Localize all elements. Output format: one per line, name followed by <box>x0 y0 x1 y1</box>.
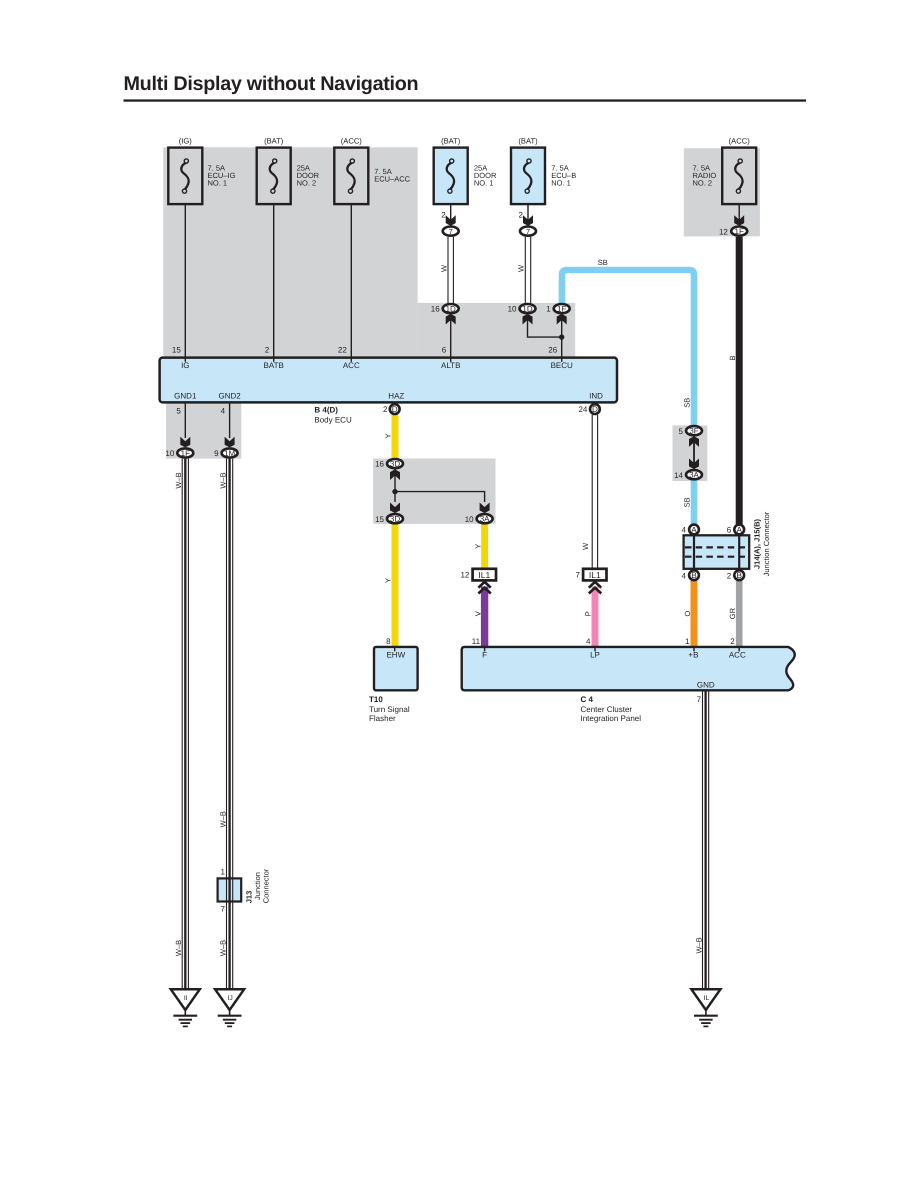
arrow up into 3F pin 5 <box>689 436 699 447</box>
svg-text:BATB: BATB <box>264 361 284 370</box>
svg-text:2: 2 <box>730 637 735 646</box>
svg-text:Connector: Connector <box>261 868 270 903</box>
wire W: IND pin 24 to IL1 pin 7 (white wire, double line) <box>592 415 597 569</box>
arrow down into 3A pin 14 <box>689 459 699 470</box>
fuse DOOR NO.1 (BAT) 25A <box>434 148 468 205</box>
svg-text:Center Cluster: Center Cluster <box>581 705 633 714</box>
svg-text:15: 15 <box>375 515 384 524</box>
svg-text:EHW: EHW <box>386 650 405 659</box>
connector A pin 4 (SB) <box>689 525 699 535</box>
svg-text:Turn Signal: Turn Signal <box>369 705 410 714</box>
svg-text:BECU: BECU <box>551 361 573 370</box>
wire: fuse ECU-B pin 2 to connector 7 <box>527 193 529 226</box>
svg-text:3D: 3D <box>390 515 400 524</box>
svg-text:7: 7 <box>575 570 580 579</box>
svg-text:1: 1 <box>685 637 690 646</box>
svg-text:22: 22 <box>338 346 347 355</box>
svg-text:7: 7 <box>697 695 702 704</box>
arrow up into 1F pin 1 <box>557 314 567 325</box>
ECU B4(D) Body ECU box <box>160 358 617 403</box>
svg-text:15: 15 <box>172 346 181 355</box>
shield chevrons under IL1 left <box>478 582 490 594</box>
gray block: power source area (fuses IG/BAT/ACC) <box>163 147 417 357</box>
svg-text:25ADOORNO. 1: 25ADOORNO. 1 <box>474 164 497 188</box>
arrow into 1F (GND1) <box>180 437 190 448</box>
svg-text:2: 2 <box>383 405 388 414</box>
shield connector IL1 pin 7 <box>583 569 606 581</box>
wire W: connector 7 to connector 1D pin 16 (white wire, double line) <box>448 237 453 303</box>
svg-text:Flasher: Flasher <box>369 714 396 723</box>
arrow into connector 7 (left) <box>446 215 456 226</box>
svg-text:Body ECU: Body ECU <box>314 416 352 425</box>
svg-text:F: F <box>482 650 487 659</box>
svg-text:1F: 1F <box>735 227 744 236</box>
arrow up into 1D pin 10 <box>523 314 533 325</box>
svg-text:O: O <box>683 611 692 617</box>
svg-text:8: 8 <box>386 637 391 646</box>
fuse ECU-B NO.1 (BAT) 7.5A <box>511 148 545 205</box>
wire Y: HAZ pin 2 to connector 3D pin 16 (yellow) <box>392 415 399 459</box>
svg-text:GND: GND <box>697 680 715 689</box>
connector B pin 2 (GR wire) <box>734 570 744 580</box>
svg-text:1F: 1F <box>181 449 190 458</box>
svg-text:5: 5 <box>176 406 181 415</box>
gray block: RADIO NO.2 fuse area <box>684 148 760 236</box>
svg-text:B: B <box>728 355 737 360</box>
svg-text:W–B: W–B <box>174 940 183 956</box>
svg-text:GR: GR <box>728 607 737 619</box>
svg-text:HAZ: HAZ <box>388 391 404 400</box>
title underline rule <box>124 99 807 101</box>
svg-text:2: 2 <box>727 571 732 580</box>
svg-text:C 4: C 4 <box>581 695 594 704</box>
svg-text:(ACC): (ACC) <box>341 137 363 146</box>
svg-text:1: 1 <box>221 867 226 876</box>
T10 Turn Signal Flasher box <box>374 647 418 690</box>
svg-text:GND2: GND2 <box>218 391 241 400</box>
connector 3A pin 10 <box>477 514 493 523</box>
svg-text:SB: SB <box>598 258 608 267</box>
wire W-B: C4 GND pin 7 to ground IL (white-black wire) <box>703 690 709 989</box>
svg-text:B 4(D): B 4(D) <box>314 405 338 414</box>
fuse RADIO NO.2 (ACC) 7.5A <box>722 148 756 205</box>
junction dot on BECU net <box>559 334 564 339</box>
wire: fuse ECU-IG to Body ECU pin 15 (IG) <box>184 193 186 358</box>
connector B pin 4 (O wire) <box>689 570 699 580</box>
svg-text:W–B: W–B <box>219 472 228 488</box>
junction connector internal wire lines <box>694 534 739 570</box>
connector 3D pin 16 <box>387 459 403 469</box>
svg-text:(ACC): (ACC) <box>729 137 751 146</box>
svg-text:B: B <box>691 571 697 580</box>
svg-text:W–B: W–B <box>174 472 183 488</box>
svg-text:IL: IL <box>704 995 710 1002</box>
svg-text:6: 6 <box>727 526 732 535</box>
wire: fuse ECU-ACC to Body ECU pin 22 (ACC) <box>350 193 352 358</box>
svg-text:Multi Display without Navigati: Multi Display without Navigation <box>124 73 419 95</box>
svg-text:A: A <box>736 525 742 534</box>
svg-text:4: 4 <box>586 637 591 646</box>
connector 1D pin 16 <box>443 304 459 314</box>
C4 pin stubs <box>485 647 740 652</box>
svg-text:ACC: ACC <box>729 650 746 659</box>
svg-text:D: D <box>592 405 598 414</box>
svg-text:T10: T10 <box>369 695 383 704</box>
shield connector IL1 pin 12 <box>473 569 496 581</box>
wire: GND1 pin 5 to connector 1F pin 10 <box>184 402 186 438</box>
svg-text:II: II <box>184 995 188 1002</box>
svg-text:2: 2 <box>441 210 446 219</box>
svg-text:1F: 1F <box>557 305 566 314</box>
wire: BECU pin 26 net with branch to 1D pin 10 and 1F pin 1 <box>528 316 562 358</box>
gray block: ground connector area below GND1/GND2 <box>166 402 241 458</box>
connector 1D pin 10 <box>520 304 536 314</box>
svg-text:(BAT): (BAT) <box>264 137 284 146</box>
wire P: IL1 to C4 pin 4 LP (pink) <box>592 587 599 648</box>
svg-text:26: 26 <box>548 346 557 355</box>
junction connector internal dashed bus lines <box>685 547 748 556</box>
svg-text:+B: +B <box>688 650 698 659</box>
wire GR: junction connector B pin 2 to C4 ACC pin 2 (gray) <box>736 581 743 647</box>
wire: 3F to 3A interconnect <box>693 438 695 467</box>
svg-text:7. 5AECU–BNO. 1: 7. 5AECU–BNO. 1 <box>551 164 576 188</box>
connector 7 (ecu-b fuse) <box>520 227 536 237</box>
svg-text:Y: Y <box>384 433 393 438</box>
wire W-B: connector 1F to ground II (white-black wire) <box>182 459 188 989</box>
gray block: 3F/3A connector pair <box>673 425 708 481</box>
svg-text:W–B: W–B <box>219 811 228 827</box>
svg-text:ACC: ACC <box>343 361 360 370</box>
wire: connector 1D pin 16 to ALTB pin 6 <box>450 316 452 358</box>
svg-text:2: 2 <box>519 210 524 219</box>
wire Y: connector 3D pin 15 to T10 EHW pin 8 (yellow) <box>392 524 399 647</box>
arrow into connector 1F (radio) <box>734 215 744 226</box>
svg-text:IJ: IJ <box>227 995 232 1002</box>
svg-text:(BAT): (BAT) <box>441 137 461 146</box>
wire SB: 3A pin 14 down to junction connector A pin 4 (sky blue) <box>691 480 698 524</box>
svg-text:(BAT): (BAT) <box>518 137 538 146</box>
svg-text:IL1: IL1 <box>589 570 601 580</box>
svg-text:3F: 3F <box>689 427 698 436</box>
svg-text:2: 2 <box>265 346 270 355</box>
svg-text:ALTB: ALTB <box>441 361 460 370</box>
svg-text:IG: IG <box>181 361 189 370</box>
svg-text:7: 7 <box>449 227 453 236</box>
wire Y: connector 3A pin 10 to IL1 pin 12 (yellow) <box>481 524 488 569</box>
svg-text:B: B <box>736 571 742 580</box>
svg-text:1D: 1D <box>446 305 456 314</box>
arrow into connector 7 (right) <box>523 215 533 226</box>
fuse DOOR NO.2 (BAT) 25A <box>257 148 291 205</box>
svg-text:1M: 1M <box>224 449 235 458</box>
arrow up into 3D pin 16 <box>390 469 400 480</box>
svg-text:(IG): (IG) <box>179 137 193 146</box>
svg-text:10: 10 <box>508 305 517 314</box>
svg-text:4: 4 <box>682 526 687 535</box>
svg-text:SB: SB <box>683 497 692 507</box>
svg-text:16: 16 <box>431 305 440 314</box>
J13 junction connector box <box>218 878 242 901</box>
svg-text:10: 10 <box>165 449 174 458</box>
svg-text:3A: 3A <box>480 515 490 524</box>
junction connector J14(A) J15(B) box <box>684 535 750 569</box>
svg-text:1: 1 <box>546 305 551 314</box>
wire V: IL1 to C4 pin 11 F (violet) <box>481 587 488 648</box>
svg-text:GND1: GND1 <box>174 391 197 400</box>
connector 3F pin 5 <box>686 426 702 436</box>
T10 pin stub <box>394 647 396 652</box>
svg-text:Integration Panel: Integration Panel <box>581 714 642 723</box>
ground IL <box>691 989 720 1026</box>
arrow into 1M (GND2) <box>225 437 235 448</box>
arrow down into 3D pin 15 <box>390 503 400 514</box>
svg-text:W–B: W–B <box>219 940 228 956</box>
svg-text:Junction Connector: Junction Connector <box>762 511 771 576</box>
junction dot on 3D net <box>392 489 397 494</box>
wire: fuse DOOR NO.2 to Body ECU pin 2 (BATB) <box>273 193 275 358</box>
svg-text:P: P <box>584 611 593 616</box>
arrow down into 3A pin 10 <box>480 503 490 514</box>
fuse ECU-IG NO.1 (IG) 7.5A <box>168 148 202 205</box>
gray band: connector 1D/1F row above Body ECU <box>418 303 576 358</box>
wire W-B: connector 1M through J13 to ground IJ (white-black wire) <box>227 459 233 989</box>
connector D (HAZ pin 2) <box>390 404 400 414</box>
svg-text:5: 5 <box>679 427 684 436</box>
svg-text:9: 9 <box>214 449 219 458</box>
wire W: connector 7 to connector 1D pin 10 (white wire, double line) <box>525 237 530 303</box>
wire: fuse RADIO NO.2 pin 12 to connector 1F <box>738 193 740 226</box>
svg-text:A: A <box>691 525 697 534</box>
svg-text:W: W <box>581 542 590 550</box>
svg-text:IND: IND <box>589 391 603 400</box>
svg-text:11: 11 <box>472 637 481 646</box>
Body ECU pin stubs <box>185 358 561 362</box>
wire: fuse DOOR NO.1 pin 2 to connector 7 <box>450 193 452 226</box>
gray block: 3D/3A junction area <box>373 459 495 524</box>
svg-text:14: 14 <box>674 471 683 480</box>
wire: 3D internal net with junction to 3A <box>395 469 485 502</box>
connector 1M (GND2) <box>222 448 238 458</box>
wire O: junction connector B pin 4 to C4 +B pin 1 (orange) <box>691 581 698 647</box>
svg-text:4: 4 <box>682 571 687 580</box>
svg-text:4: 4 <box>221 406 226 415</box>
svg-text:IL1: IL1 <box>478 570 490 580</box>
svg-text:24: 24 <box>578 405 587 414</box>
wire B: connector 1F to junction connector A pin 6 (black wire) <box>736 237 743 524</box>
svg-text:12: 12 <box>460 571 469 580</box>
svg-text:W–B: W–B <box>695 937 704 953</box>
arrow up into 1D pin 16 <box>446 314 456 325</box>
connector 3D pin 15 <box>387 514 403 523</box>
svg-text:Y: Y <box>384 578 393 583</box>
fuse ECU-ACC (ACC) 7.5A <box>334 148 368 205</box>
svg-text:7: 7 <box>526 227 530 236</box>
connector 1F (radio fuse) <box>731 227 747 237</box>
svg-text:6: 6 <box>442 346 447 355</box>
J13 wire pass-through <box>227 876 233 904</box>
connector 7 (door fuse) <box>443 227 459 237</box>
svg-text:12: 12 <box>719 227 728 236</box>
svg-text:LP: LP <box>590 650 600 659</box>
wire SB: 1F pin 1 up, across, down to 3F pin 5 (sky blue) <box>562 270 694 425</box>
ground II <box>171 989 200 1026</box>
svg-text:1D: 1D <box>522 305 532 314</box>
svg-text:V: V <box>473 611 482 616</box>
svg-text:D: D <box>392 405 398 414</box>
svg-text:3D: 3D <box>390 460 400 469</box>
svg-text:SB: SB <box>683 398 692 408</box>
C4 Center Cluster Integration Panel box <box>462 647 795 690</box>
svg-text:16: 16 <box>375 460 384 469</box>
connector D (IND pin 24) <box>590 404 600 414</box>
connector 1F pin 1 <box>554 304 570 314</box>
svg-text:J14(A), J15(B): J14(A), J15(B) <box>753 518 762 569</box>
svg-text:7: 7 <box>221 904 226 913</box>
wire: GND2 pin 4 to connector 1M pin 9 <box>229 402 231 438</box>
svg-text:10: 10 <box>465 515 474 524</box>
ground IJ <box>215 989 244 1026</box>
shield chevrons under IL1 right <box>589 582 601 594</box>
svg-text:W: W <box>439 264 448 272</box>
svg-text:Y: Y <box>473 544 482 549</box>
connector 3A pin 14 <box>686 470 702 480</box>
connector A pin 6 (B wire) <box>734 525 744 535</box>
connector 1F (GND1) <box>177 448 193 458</box>
svg-text:3A: 3A <box>689 471 699 480</box>
svg-text:W: W <box>517 264 526 272</box>
